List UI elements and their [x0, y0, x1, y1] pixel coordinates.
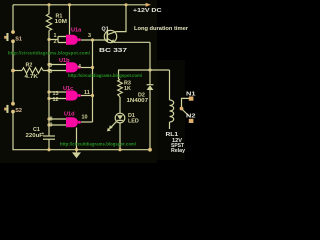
node rail dot Q1 collector: [124, 3, 127, 6]
svg-text:1K: 1K: [124, 86, 131, 92]
NAND gate U1c: [49, 86, 90, 103]
wire branch row to coil: [118, 69, 170, 71]
relay contact N1: [182, 92, 196, 108]
resistor R3: [118, 70, 131, 113]
svg-text:http://circuitdiagrams.blogspo: http://circuitdiagrams.blogspot.com/: [60, 141, 137, 146]
svg-text:U1d: U1d: [64, 111, 75, 117]
svg-text:10M: 10M: [55, 19, 68, 25]
switch S2: [4, 102, 22, 114]
LED D1: [107, 113, 139, 131]
wire left column upper: [12, 5, 14, 32]
wire U1d ground leg: [76, 128, 78, 153]
wire node column (R1 bottom to C1 top): [48, 40, 50, 137]
svg-text:4.7K: 4.7K: [25, 74, 39, 80]
relay contact pivot and blade: [180, 107, 184, 111]
svg-text:Q1: Q1: [102, 26, 109, 32]
svg-text:+12V DC: +12V DC: [133, 8, 162, 14]
NAND gate U1b: [49, 58, 81, 75]
relay coil RL1: [166, 70, 186, 154]
wire top +12V rail: [13, 4, 146, 6]
wire U1a VDD riser: [69, 5, 71, 35]
svg-text:U1c: U1c: [63, 86, 73, 92]
relay contact N2: [186, 113, 196, 123]
svg-text:+: +: [42, 132, 45, 137]
svg-text:Relay: Relay: [171, 148, 185, 154]
svg-text:BC 337: BC 337: [99, 48, 127, 54]
resistor R1: [46, 5, 67, 40]
wire U1a output to Q1 base: [81, 39, 107, 41]
svg-text:R2: R2: [26, 63, 33, 69]
wire left column lower + bottom rail: [13, 112, 150, 150]
node junction dots on node column: [47, 38, 50, 41]
svg-text:U1b: U1b: [59, 58, 70, 64]
svg-text:6: 6: [49, 69, 52, 75]
svg-text:S1: S1: [15, 36, 22, 42]
node rail dot R1: [47, 3, 50, 6]
wire emitter column to bottom: [149, 42, 151, 84]
node rail dot U1a: [68, 3, 71, 6]
wire output column: [92, 40, 94, 122]
resistor R2: [13, 63, 49, 80]
svg-text:S2: S2: [15, 108, 22, 114]
svg-text:Long duration timer: Long duration timer: [134, 26, 188, 32]
svg-text:N2: N2: [186, 113, 196, 119]
switch S1: [4, 30, 22, 43]
wire left column middle: [12, 41, 14, 103]
diode D2 (flyback): [127, 85, 154, 150]
wire U1b output: [81, 67, 93, 69]
svg-text:LED: LED: [128, 118, 139, 124]
wire U1d output riser: [81, 121, 93, 123]
svg-text:10: 10: [82, 115, 88, 121]
transistor Q1: [99, 5, 150, 54]
node LED rail dot: [118, 148, 121, 151]
wire U1c output: [81, 95, 93, 97]
svg-text:12: 12: [53, 97, 59, 103]
svg-text:C1: C1: [33, 127, 40, 133]
svg-text:2: 2: [54, 39, 57, 45]
NAND gate U1d: [49, 111, 88, 128]
capacitor C1: [26, 127, 56, 150]
svg-text:http://circuitdiagrams.blogspo: http://circuitdiagrams.blogspot.com/: [68, 73, 143, 78]
svg-text:http://circuitdiagrams.blogspo: http://circuitdiagrams.blogspot.com/: [8, 51, 91, 56]
svg-text:U1a: U1a: [71, 28, 82, 34]
node bottom rail end dot: [148, 148, 152, 152]
ground: [72, 152, 81, 158]
node branch dot emitter/coil/R3: [148, 68, 151, 71]
node base junction dot: [91, 38, 94, 41]
svg-text:1N4007: 1N4007: [127, 98, 149, 104]
svg-text:3: 3: [88, 33, 91, 39]
node R2 left dot: [11, 69, 15, 73]
wire LED to bottom rail: [119, 123, 121, 150]
node supply arrow: [146, 3, 151, 7]
svg-text:4: 4: [78, 64, 81, 70]
NAND gate U1a: [49, 28, 91, 45]
svg-text:9: 9: [50, 122, 53, 128]
